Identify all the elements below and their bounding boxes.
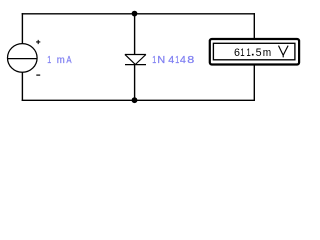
diode D1 anode bar (triangle base): [125, 54, 146, 56]
svg-text:m: m: [57, 55, 65, 66]
current source I1 body: [7, 44, 37, 73]
wire left branch upper segment: [21, 13, 23, 44]
svg-text:m: m: [263, 47, 271, 59]
svg-text:N: N: [157, 55, 165, 66]
junction node: diode cathode on bottom rail: [132, 97, 138, 103]
voltmeter M1 reading decimal point: [252, 54, 254, 56]
svg-text:1: 1: [246, 47, 250, 59]
svg-text:1: 1: [240, 47, 244, 59]
svg-text:A: A: [66, 55, 71, 66]
current source I1 diameter bar: [8, 58, 37, 60]
current source I1 minus polarity mark: [36, 74, 40, 76]
voltmeter M1 unit glyph V: [279, 46, 289, 58]
svg-text:4: 4: [168, 55, 174, 66]
junction node: diode anode on top rail: [132, 11, 138, 17]
diode D1 triangle right edge: [135, 55, 146, 65]
svg-text:1: 1: [47, 55, 51, 66]
wire top rail: [22, 13, 255, 15]
voltmeter M1 outer case: [210, 39, 299, 65]
value label "1N4148" of diode: [152, 55, 195, 66]
svg-text:5: 5: [256, 47, 262, 59]
current source I1 plus polarity mark: [36, 40, 40, 44]
svg-text:6: 6: [234, 47, 240, 59]
wire right branch upper segment: [253, 13, 255, 39]
wire middle branch anode segment: [134, 13, 136, 55]
wire bottom rail: [22, 99, 255, 101]
svg-text:4: 4: [180, 55, 186, 66]
wire middle branch cathode segment: [134, 64, 136, 100]
svg-text:8: 8: [187, 55, 195, 66]
voltmeter M1 reading "611.5m": [234, 47, 271, 59]
voltmeter M1 inner display window: [213, 43, 295, 60]
wire right branch lower segment: [253, 65, 255, 101]
diode D1 cathode bar: [125, 64, 146, 66]
svg-text:1: 1: [152, 55, 156, 66]
wire left branch lower segment: [21, 72, 23, 101]
value label "1 mA" of current source: [47, 55, 72, 66]
diode D1 triangle left edge: [125, 55, 135, 65]
